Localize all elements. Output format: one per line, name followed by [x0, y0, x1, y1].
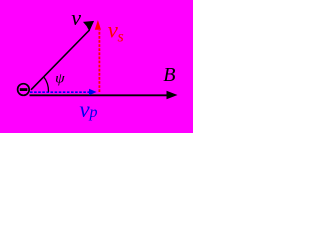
- svg-text:s: s: [118, 28, 124, 45]
- svg-text:p: p: [89, 104, 98, 121]
- svg-text:B: B: [163, 64, 175, 86]
- svg-text:v: v: [71, 5, 81, 30]
- svg-text:ψ: ψ: [55, 72, 65, 87]
